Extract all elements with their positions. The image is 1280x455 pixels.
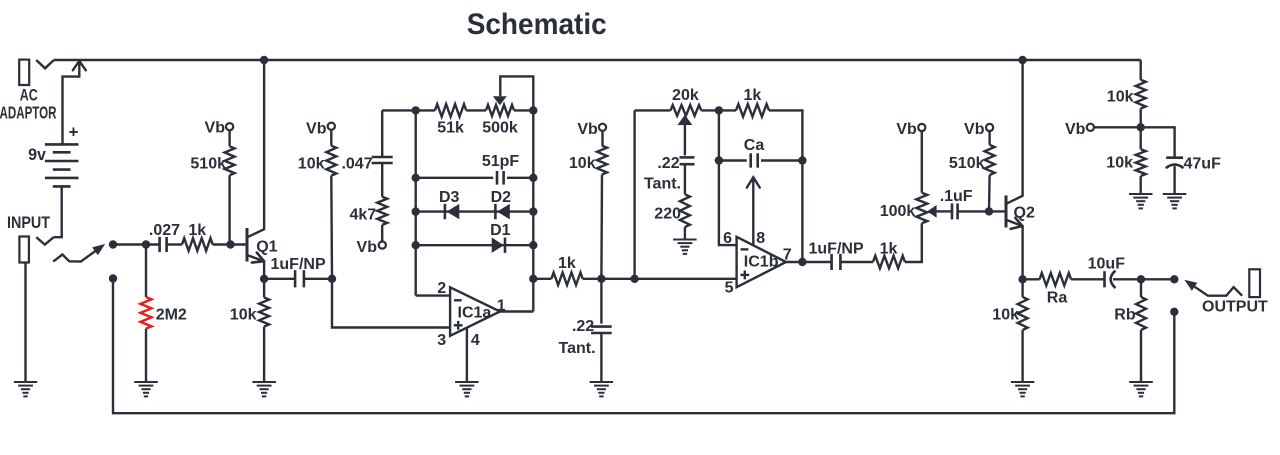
junction: IC1b output node — [798, 258, 806, 266]
wire: .22 to 220 — [684, 164, 686, 194]
svg-text:D2: D2 — [491, 189, 512, 206]
svg-text:IC1b: IC1b — [744, 254, 779, 271]
wire: 220 to ground — [684, 227, 686, 239]
resistor 4k7 — [377, 197, 387, 225]
resistor 510k (Q1 base) — [225, 146, 235, 175]
svg-text:500k: 500k — [482, 120, 518, 137]
junction: fb row3 right — [529, 207, 537, 215]
wire: IC1a pin4 to ground — [466, 328, 468, 382]
wire: Q2 emitter to Ra — [1023, 278, 1040, 280]
resistor 220 — [680, 194, 690, 227]
resistor 2M2 (red) — [140, 297, 151, 329]
wire: 20k left rail — [633, 110, 635, 278]
wire: IC1b pin 8 lead — [752, 180, 754, 245]
svg-text:10k: 10k — [298, 156, 325, 173]
junction: output switch bypass contact — [1170, 308, 1178, 316]
capacitor .027 — [158, 237, 161, 252]
IC1b noninverting plus — [740, 274, 749, 276]
svg-text:47uF: 47uF — [1184, 155, 1222, 172]
svg-text:Tant.: Tant. — [558, 340, 595, 357]
svg-text:51k: 51k — [437, 120, 464, 137]
resistor 1k (input) — [182, 238, 213, 251]
junction: 20k rail at pin5 row — [630, 275, 638, 283]
arrowhead: 100k wiper — [927, 205, 936, 218]
junction: fb2 row / Ca rail — [715, 106, 723, 114]
wire: input node to .027 cap — [113, 243, 159, 245]
svg-text:10k: 10k — [992, 307, 1019, 324]
junction: Vb node — [1137, 123, 1145, 131]
svg-text:Q2: Q2 — [1014, 205, 1035, 222]
IC1a noninverting plus — [454, 324, 463, 326]
svg-text:1k: 1k — [558, 255, 576, 272]
wire: Vb to 510k (Q2) — [988, 131, 990, 145]
resistor 51k — [435, 104, 466, 117]
wire: 10k to Vb node — [1139, 109, 1141, 128]
wire: 10uF to Rb node — [1113, 278, 1141, 280]
svg-text:510k: 510k — [949, 155, 985, 172]
junction: input switch top contact — [109, 240, 117, 248]
potentiometer 20k (element) — [671, 105, 702, 116]
wire: 47uF to ground — [1173, 166, 1175, 193]
svg-text:+: + — [69, 122, 79, 141]
resistor 10k (IC1a bias) — [326, 146, 336, 176]
wire: node to IC1a pin 3 — [332, 279, 450, 328]
svg-text:Tant.: Tant. — [644, 175, 681, 192]
capacitor 1uF/NP (stage2) — [830, 254, 833, 270]
wire: 20k to 1k — [701, 109, 736, 111]
AC adaptor jack J1 (sleeve) — [19, 60, 29, 85]
junction: Q2 emitter node — [1018, 275, 1026, 283]
wire: 1k to IC1b out rail — [769, 110, 802, 262]
wire: IC1b out to 1uF/NP — [802, 261, 831, 263]
ground: Rb — [1129, 381, 1153, 383]
junction: output switch top contact — [1170, 275, 1178, 283]
arrowhead: 500k wiper — [493, 96, 507, 105]
svg-text:4k7: 4k7 — [349, 207, 376, 224]
node Vb terminal (IC1a bias) — [328, 123, 335, 130]
wire: Vb to 10k (stage2) — [601, 131, 603, 146]
ground: .22 tant (stage1) — [590, 381, 614, 383]
wire: 10k to stage1 out node — [600, 175, 603, 279]
capacitor .22 Tant (tone) — [680, 156, 695, 159]
svg-text:Ca: Ca — [744, 137, 765, 154]
svg-text:IC1a: IC1a — [458, 305, 492, 322]
IC1b inverting input minus — [741, 248, 749, 250]
svg-text:Vb: Vb — [1065, 121, 1086, 138]
wire: battery negative lead — [54, 186, 62, 237]
diode D3 cathode bar — [444, 204, 447, 219]
wire: 2M2 bottom lead — [145, 329, 147, 382]
arrowhead: output switch arm — [1184, 280, 1197, 291]
diode D1 (triangle, points right) — [492, 238, 504, 253]
transistor Q1 emitter — [248, 255, 265, 279]
wire: node to IC1b pin 5 — [601, 278, 736, 280]
wire: 1uF/NP to 1k — [840, 261, 873, 263]
wire: top supply rail (+9V) — [54, 59, 1141, 61]
node Vb terminal (stage2 bias) — [599, 124, 606, 131]
wire: 1k to Q1 base — [213, 243, 246, 245]
svg-text:2M2: 2M2 — [156, 307, 187, 324]
battery B1 9v (plates) — [45, 143, 79, 146]
svg-text:Vb: Vb — [964, 121, 985, 138]
wire: rail to IC1b pin 6 — [719, 110, 737, 245]
svg-text:3: 3 — [437, 332, 446, 349]
diode D1 cathode bar — [504, 238, 507, 253]
wire: .1uF to Q2 base — [958, 210, 1007, 212]
ground: 220 (tone) — [673, 239, 697, 241]
wire: 51k to 500k — [466, 109, 486, 111]
arrowhead: battery to rail — [73, 61, 86, 70]
diode D3 (triangle, points left) — [447, 204, 460, 219]
wire: node to .22 tant — [600, 279, 602, 324]
bypass switch arm squiggle (input) — [53, 251, 96, 262]
wire: Q1 emitter to 1uF/NP — [264, 278, 295, 280]
ground: Q1 emitter 10k — [252, 381, 276, 383]
diode D2 cathode bar — [494, 204, 497, 219]
junction: fb row4 right — [529, 241, 537, 249]
wire: right feedback rail — [532, 110, 534, 311]
battery positive lead with jog — [63, 62, 80, 144]
wire: Ra to 10uF — [1071, 278, 1105, 280]
svg-text:.027: .027 — [149, 222, 180, 239]
svg-text:1uF/NP: 1uF/NP — [809, 240, 864, 257]
wire: 20k wiper to .22 — [684, 124, 686, 155]
wire: 2M2 top lead — [145, 245, 147, 298]
wire: .027 to 1k — [167, 243, 182, 245]
wire: Vb to 10k — [330, 130, 332, 146]
arrowhead: 20k wiper — [678, 115, 693, 125]
wire: fb row3 — [416, 210, 534, 212]
svg-text:Rb: Rb — [1114, 307, 1136, 324]
resistor 1k (IC1b feedback) — [736, 104, 769, 117]
junction: Ca row left — [715, 156, 723, 164]
junction: IC1a output to 1k — [529, 275, 537, 283]
wire: Q2 10k to ground — [1021, 330, 1023, 382]
transistor Q2 collector — [1007, 60, 1023, 204]
junction: fb row1 right rail — [529, 106, 537, 114]
svg-text:INPUT: INPUT — [7, 214, 50, 232]
capacitor 51pF (mask) — [493, 170, 507, 186]
svg-text:D1: D1 — [490, 222, 511, 239]
svg-text:4: 4 — [471, 332, 480, 349]
svg-text:Schematic: Schematic — [467, 8, 607, 41]
node Vb terminal (Q1 bias) — [226, 123, 233, 130]
wire: Ca row — [719, 159, 803, 161]
AC adaptor jack J1 (tip contact V) — [36, 60, 54, 68]
wire: feedback row 1 left — [382, 109, 435, 111]
node Vb terminal (Q2 bias) — [986, 124, 993, 131]
junction: Q1 collector at rail — [260, 56, 268, 64]
svg-text:1uF/NP: 1uF/NP — [271, 256, 326, 273]
svg-text:10k: 10k — [1106, 154, 1133, 171]
svg-text:510k: 510k — [190, 156, 226, 173]
junction: Q2 collector at rail — [1018, 56, 1026, 64]
svg-text:100k: 100k — [880, 203, 916, 220]
capacitor .1uF — [951, 203, 954, 219]
node Vb terminal (source) — [1087, 124, 1094, 131]
svg-text:5: 5 — [725, 279, 734, 296]
svg-text:220: 220 — [654, 206, 681, 223]
junction: fb row4 left — [412, 241, 420, 249]
wire: 10k to 1uF node — [330, 176, 333, 279]
wire: Q2 emitter to 10k — [1021, 279, 1023, 297]
ground: input jack — [14, 381, 37, 383]
node Vb terminal (below 4k7) — [379, 242, 386, 249]
capacitor Ca (mask) — [747, 153, 761, 169]
svg-text:1k: 1k — [880, 240, 898, 257]
junction: fb row2 left — [412, 174, 420, 182]
wire: divider 10k to ground — [1139, 176, 1141, 194]
svg-text:20k: 20k — [672, 87, 699, 104]
svg-text:10k: 10k — [230, 306, 257, 323]
ground: IC1a pin 4 — [455, 381, 479, 383]
wire: IC1a out to 1k — [533, 278, 551, 280]
wire: bypass bottom rail — [113, 279, 1174, 414]
capacitor .047 — [372, 156, 393, 159]
wire: Vb node to terminal — [1094, 126, 1141, 128]
INPUT jack tip contact V — [36, 237, 53, 244]
svg-text:Q1: Q1 — [256, 238, 277, 255]
svg-text:10k: 10k — [569, 155, 596, 172]
resistor 1k (stage2 out) — [873, 256, 905, 269]
resistor 10k (stage2 bias) — [597, 146, 607, 175]
resistor Rb — [1136, 297, 1146, 330]
capacitor 47uF (plates) — [1166, 156, 1183, 159]
svg-text:1k: 1k — [744, 87, 762, 104]
ground: 47uF — [1163, 193, 1187, 195]
svg-text:.047: .047 — [341, 156, 372, 173]
ground: Q2 emitter 10k — [1011, 381, 1034, 383]
wire: 100k top to Vb — [921, 131, 923, 193]
wire: Vb to 510k — [228, 130, 230, 146]
wire: fb row2 — [416, 177, 534, 179]
wire: Rb node to output contact — [1141, 278, 1174, 280]
svg-text:Vb: Vb — [896, 121, 917, 138]
ground: 2M2 — [134, 381, 158, 383]
junction: fb row2 right — [529, 174, 537, 182]
resistor 10k (divider bottom) — [1136, 149, 1146, 176]
arrowhead: Q1 emitter (open barbs) — [252, 253, 264, 263]
wire: fb2 row left — [635, 109, 671, 111]
potentiometer 500k (element) — [486, 105, 514, 116]
svg-text:Ra: Ra — [1047, 290, 1068, 307]
wire: .22 tant to ground — [600, 333, 602, 382]
wire: .047 to 4k7 — [381, 163, 383, 197]
junction: stage1 out node — [597, 275, 605, 283]
svg-text:6: 6 — [723, 230, 732, 247]
resistor 510k (Q2 base) — [985, 145, 995, 175]
svg-text:1k: 1k — [188, 222, 206, 239]
junction: Q1 base / 510k — [226, 240, 234, 248]
junction: Rb node — [1137, 275, 1145, 283]
transistor Q2 base bar — [1005, 195, 1008, 227]
svg-text:.22: .22 — [572, 318, 594, 335]
wire: 1k to node — [583, 278, 602, 280]
wire: Vb node to divider bottom — [1139, 127, 1141, 149]
svg-text:ADAPTOR: ADAPTOR — [0, 102, 57, 122]
diode D2 (triangle, points left) — [497, 204, 510, 219]
wire: wiper to .1uF — [936, 210, 951, 212]
svg-text:.1uF: .1uF — [940, 188, 973, 205]
wire: IC1a output — [500, 310, 533, 312]
arrowhead: Q2 emitter (open barbs) — [1011, 218, 1023, 229]
capacitor 10uF (plates) — [1103, 271, 1106, 287]
wire: feedback row to .047 — [381, 110, 383, 157]
wire: 4k7 to Vb — [381, 225, 383, 242]
svg-text:10k: 10k — [1107, 88, 1134, 105]
resistor 1k (stage1 out) — [551, 273, 582, 286]
capacitor 51pF — [496, 171, 499, 185]
wire: 500k wiper loop — [500, 76, 533, 110]
junction: Q2 base node — [985, 207, 993, 215]
arrowhead: input switch arm — [92, 244, 105, 255]
svg-text:9v: 9v — [28, 145, 46, 164]
wire: Q1 emitter to 10k — [263, 279, 265, 298]
wire: IC1a pin2 lead — [416, 294, 450, 296]
wire: 10k to ground — [263, 327, 265, 382]
transistor Q1 base bar — [246, 228, 249, 262]
arrowhead: pin 8 to Ca — [747, 177, 760, 187]
svg-text:Vb: Vb — [205, 119, 226, 136]
junction: node A (2M2 / .027) — [142, 240, 150, 248]
wire: IC1b output — [786, 261, 802, 263]
junction: Ca row right — [798, 156, 806, 164]
wire: input jack sleeve to ground — [24, 263, 26, 382]
wire: 1k to 100k pot bottom — [905, 223, 922, 262]
svg-text:8: 8 — [756, 230, 765, 247]
svg-text:10uF: 10uF — [1088, 256, 1126, 273]
ground: divider — [1129, 193, 1153, 195]
wire: 510k to Q2 base node — [988, 175, 991, 211]
OUTPUT jack J4 (sleeve) — [1249, 269, 1260, 297]
svg-text:.22: .22 — [657, 155, 679, 172]
junction: IC1a noninverting node — [328, 275, 336, 283]
bypass switch arm squiggle (output) — [1195, 287, 1243, 296]
svg-text:Vb: Vb — [357, 239, 378, 256]
junction: fb row1 left rail — [412, 106, 420, 114]
wire: fb row4 — [416, 244, 534, 246]
potentiometer 100k (element) — [916, 193, 927, 224]
op-amp IC1a (triangle) — [450, 287, 500, 336]
capacitor 1uF/NP (stage1) — [294, 270, 297, 287]
wire: rail corner to 10k (divider top) — [1139, 60, 1141, 80]
node Vb terminal (100k) — [918, 124, 925, 131]
transistor Q2 emitter — [1007, 220, 1023, 279]
junction: Q1 emitter node — [260, 275, 268, 283]
svg-text:OUTPUT: OUTPUT — [1202, 299, 1268, 316]
op-amp IC1b (triangle) — [737, 237, 786, 287]
svg-text:51pF: 51pF — [482, 153, 520, 170]
transistor Q1 collector — [248, 60, 265, 237]
resistor Ra — [1040, 273, 1071, 286]
wire: Vb node to 47uF — [1141, 127, 1175, 157]
resistor 10k (divider top) — [1136, 80, 1146, 109]
capacitor Ca — [749, 153, 752, 167]
svg-text:2: 2 — [437, 280, 446, 297]
wire: Rb to ground — [1140, 330, 1142, 382]
wire: 1uF/NP to IC1a input node — [304, 278, 332, 280]
wire: 500k to right rail — [514, 109, 533, 111]
INPUT jack J2 (sleeve) — [19, 237, 29, 263]
svg-text:D3: D3 — [439, 189, 460, 206]
resistor 10k (Q1 emitter) — [259, 298, 269, 327]
wire: Rb top lead — [1140, 279, 1142, 297]
resistor 10k (Q2 emitter) — [1018, 297, 1028, 330]
junction: fb row3 left — [412, 207, 420, 215]
IC1a inverting input minus — [454, 299, 462, 301]
wire: left feedback rail — [415, 110, 417, 295]
svg-text:Vb: Vb — [577, 121, 598, 138]
wire: 510k to Q1 base node — [228, 175, 230, 244]
svg-text:Vb: Vb — [306, 120, 327, 137]
junction: input switch bypass contact — [109, 274, 117, 282]
capacitor .22 Tant (stage1) — [591, 325, 612, 328]
